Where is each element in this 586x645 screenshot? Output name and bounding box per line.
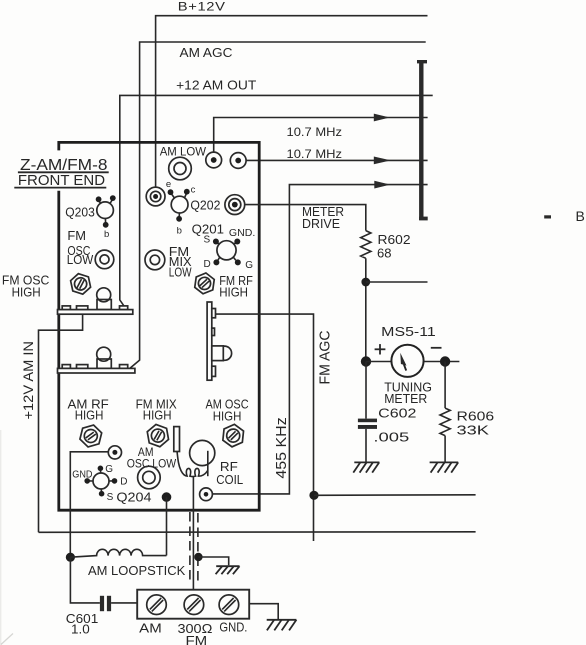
svg-text:.005: .005 [373,429,409,444]
svg-text:AM LOW: AM LOW [160,145,207,159]
svg-text:HIGH: HIGH [219,285,248,300]
bracket top foot [417,60,427,63]
svg-text:GND.: GND. [219,620,247,635]
scan artifact bottom left corner [1,634,13,645]
pin to second 10.7MHz [230,153,246,169]
trimmer FM OSC HIGH [70,272,92,296]
feedthrough FM OSC LOW [95,250,114,269]
pin RF coil output [200,488,213,501]
wire +12V AM IN bottom bus [39,531,476,534]
gang section1 stator bar [58,310,133,315]
svg-text:COIL: COIL [216,472,243,487]
svg-text:Q204: Q204 [116,489,151,504]
ground R606 [430,462,459,472]
plus sign [375,348,386,350]
svg-text:68: 68 [377,246,392,261]
svg-text:D: D [120,476,127,487]
gang section1 lug b [77,306,88,310]
trimmer FM MIX HIGH [146,423,169,449]
wire R606 to ground [444,436,446,463]
svg-text:Q203: Q203 [65,205,95,220]
wire AM AGC bus [129,42,426,369]
scan artifact left edge [0,430,1,645]
resistor R606 [440,408,450,436]
arrowhead second [374,157,391,165]
svg-text:455 KHz: 455 KHz [273,417,290,478]
gang section2 lug a [62,365,70,369]
svg-text:AM LOOPSTICK: AM LOOPSTICK [88,563,186,578]
svg-text:MS5-11: MS5-11 [381,324,436,339]
dash mark top right [544,215,551,218]
meter needle [400,353,406,366]
svg-text:+12 AM OUT: +12 AM OUT [176,77,256,92]
IF strip lug2 [212,328,215,335]
svg-text:c: c [191,184,196,195]
IF strip lug1 [212,309,216,318]
wire meter to right node [424,361,460,363]
pin AM RF input [108,446,121,459]
wire 10.7 MHz first to bracket [214,118,428,153]
RF coil winding loops [177,452,208,477]
node FM AGC to output line [309,491,318,500]
wire loopstick to pin [70,452,108,557]
bus bracket bar [419,60,423,220]
svg-text:OSC LOW: OSC LOW [127,457,177,471]
wire +12 AM OUT bus [120,95,433,308]
transistor Q202 [171,196,188,213]
svg-text:FM AGC: FM AGC [318,331,334,385]
gang section2 lug b [77,365,88,369]
front-end module box outline [59,142,259,510]
transistor Q201 [217,241,236,260]
ground shield [216,566,240,574]
wire C602 to ground [365,429,367,463]
gang section1 lug a [62,306,70,310]
svg-text:G: G [105,464,113,475]
node Q204 source junction [162,492,172,502]
svg-text:D: D [204,259,211,270]
wire FM AGC from IF strip lug [216,314,314,541]
arrowhead first [374,114,390,122]
wire third arrow from RF coil [213,185,428,494]
svg-text:B+12V: B+12V [178,0,226,13]
RF coil form circle [190,440,215,465]
gang section1 lug c [120,306,128,310]
svg-text:C602: C602 [378,406,416,421]
ground terminal strip [267,620,297,631]
svg-text:HIGH: HIGH [75,407,104,422]
wire plus node to meter [366,361,391,363]
wire minus node to R606 [444,362,446,409]
svg-text:AM: AM [139,621,162,636]
svg-text:10.7 MHz: 10.7 MHz [287,125,343,139]
screw AM [147,595,167,615]
svg-text:e: e [166,179,171,190]
wire C601 to strip [111,602,137,604]
svg-text:FRONT END: FRONT END [18,173,105,189]
pin to first 10.7MHz [206,152,222,168]
capacitor C602 [358,419,377,423]
svg-text:1.0: 1.0 [71,621,90,636]
svg-text:LOW: LOW [67,252,94,267]
feedthrough B+12V target [146,187,165,206]
svg-text:S: S [107,492,114,503]
svg-text:Q202: Q202 [190,198,220,213]
trimmer AM OSC HIGH [222,423,244,448]
tuning meter body [391,345,423,377]
node meter plus [361,356,371,366]
screw GND [219,595,239,615]
transistor Q204 [93,473,109,489]
svg-text:10.7 MHz: 10.7 MHz [287,147,343,161]
gang section2 rotor [97,359,111,368]
svg-text:G: G [245,260,253,271]
IF strip lug3 [212,366,216,376]
underline Z-AM/FM-8 [18,171,109,173]
feedthrough Q202 output [225,195,245,215]
svg-text:FM: FM [67,228,86,243]
svg-text:HIGH: HIGH [12,284,41,299]
inductor AM loopstick [70,549,166,557]
trimmer AM RF HIGH [79,423,103,450]
wire junction to loopstick right end [166,497,168,555]
feedthrough AM OSC LOW [138,466,161,489]
svg-text:S: S [204,234,211,245]
terminal strip [137,590,249,619]
underline FRONT END [14,187,106,189]
svg-text:METER: METER [384,391,427,406]
svg-text:R606: R606 [457,409,495,424]
IF strip plate [207,302,212,380]
minus sign [431,347,442,349]
screw 300ohm FM [184,595,204,615]
wire strip to ground [249,604,278,619]
RF coil inner wire [207,451,209,476]
svg-text:B: B [576,208,585,224]
wire B+12V bus [156,16,428,187]
wire RF coil center tap down [192,476,194,590]
svg-text:b: b [177,225,182,236]
node meter minus [440,356,450,366]
svg-text:FM: FM [186,633,208,645]
svg-text:HIGH: HIGH [143,407,172,422]
gang section2 stator bar [58,368,135,373]
svg-text:b: b [104,229,109,240]
gang section2 lug c [120,365,128,369]
wire stub right from node [366,281,428,283]
wire shield to ground [198,557,228,565]
svg-text:GND.: GND. [229,228,255,239]
svg-text:+12V AM IN: +12V AM IN [20,341,36,420]
feedthrough AM LOW [169,157,192,180]
svg-text:33K: 33K [457,423,490,438]
wire plus node to C602 [365,362,367,419]
svg-text:LOW: LOW [169,265,192,280]
svg-text:DRIVE: DRIVE [302,216,340,231]
feedthrough FM MIX LOW [145,250,165,270]
capacitor C601 [100,596,104,611]
svg-text:HIGH: HIGH [213,408,242,423]
shield dashed right [197,513,199,583]
transistor Q203 [97,202,114,219]
arrowhead third [374,181,390,189]
wire +12V AM IN entry [39,314,83,532]
wire loopstick to C601 [70,557,100,603]
trimmer FM RF HIGH [194,272,215,295]
svg-text:AM AGC: AM AGC [180,45,233,60]
gang section1 rotor [97,300,111,310]
shield dashed left [189,512,191,583]
wire meter drive from Q202 output [245,205,366,231]
wire output line right [314,494,476,497]
wire R602 to junction [365,258,367,361]
node loopstick left [66,553,75,562]
node shield ground tap [194,553,202,561]
bracket bottom foot [419,217,428,221]
resistor R602 [361,231,371,259]
wire 10.7 MHz second to bracket [246,159,427,161]
IF strip side knob [217,346,231,360]
svg-text:GND: GND [72,470,92,481]
node R602 bottom [361,278,370,287]
RF coil slug [174,427,180,452]
ground C602 [353,462,379,472]
